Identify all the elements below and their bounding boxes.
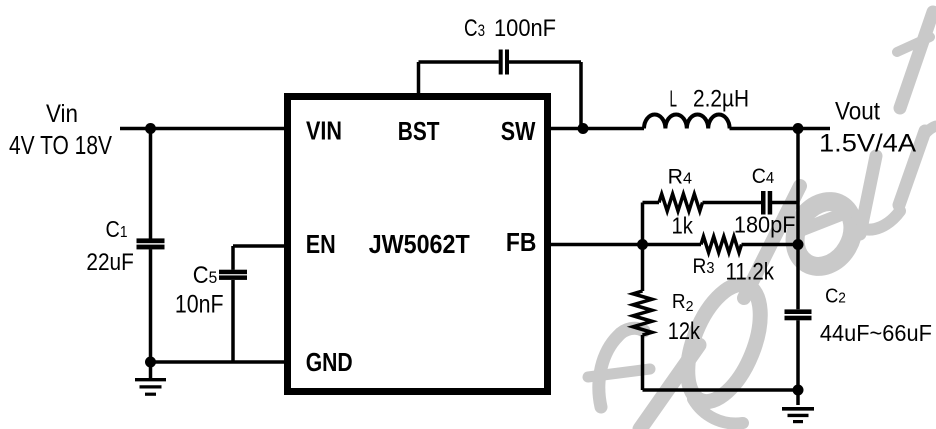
svg-text:R3: R3: [693, 255, 715, 278]
svg-text:VIN: VIN: [306, 116, 342, 146]
watermark letter t crossbar: [897, 37, 930, 52]
wire Vout vertical: [796, 129, 800, 310]
wire C3 top left: [419, 60, 499, 64]
svg-text:SW: SW: [501, 116, 536, 146]
svg-text:C4: C4: [752, 165, 774, 188]
svg-text:R2: R2: [672, 291, 694, 315]
resistor R3 zigzag: [701, 237, 742, 253]
svg-text:10nF: 10nF: [175, 291, 224, 319]
wire R2 lower: [641, 335, 645, 390]
node C1 ground junction: [145, 357, 156, 368]
watermark letter d exit tail: [693, 399, 743, 424]
capacitor C1 plates: [137, 238, 165, 249]
svg-text:2.2µH: 2.2µH: [693, 86, 749, 113]
wire FB pin to junction: [551, 243, 701, 247]
watermark letter i stroke: [640, 345, 699, 429]
svg-text:44uF~66uF: 44uF~66uF: [820, 320, 932, 346]
svg-text:Vin: Vin: [46, 100, 78, 128]
op-amp/IC U1 JW5062T body: [288, 97, 548, 392]
svg-text:L: L: [670, 85, 678, 111]
wire R3 right to vertical: [742, 243, 799, 247]
svg-text:C3: C3: [464, 15, 485, 42]
svg-text:R4: R4: [668, 166, 692, 189]
wire R2 upper: [641, 245, 645, 292]
wire C5 vertical lower: [231, 280, 235, 362]
node FB junction: [637, 239, 648, 250]
svg-text:C1: C1: [106, 216, 128, 242]
watermark letter e bowl: [784, 191, 865, 277]
wire C5 vertical upper: [231, 246, 235, 270]
inductor L 2.2uH: [644, 114, 730, 128]
node C2 ground junction: [793, 385, 804, 396]
svg-text:Vout: Vout: [835, 98, 880, 126]
wire SW to inductor: [551, 127, 644, 131]
capacitor C3 plates: [499, 50, 509, 75]
watermark letter n right stem: [899, 131, 925, 205]
svg-text:EN: EN: [306, 229, 336, 259]
svg-text:1.5V/4A: 1.5V/4A: [819, 130, 916, 158]
svg-text:4V TO 18V: 4V TO 18V: [9, 130, 113, 160]
node Vout junction: [793, 123, 804, 134]
wire C1 vertical upper: [149, 129, 153, 239]
wire C1 vertical lower: [149, 249, 153, 362]
watermark letter d bowl: [673, 274, 775, 411]
capacitor C2 plates: [785, 309, 812, 320]
watermark letter t stem: [900, 12, 933, 108]
watermark letter n top hook: [923, 126, 936, 136]
watermark letter f crossbar: [588, 369, 650, 377]
wire C3 right vertical: [579, 62, 583, 129]
resistor R2 zigzag vertical: [633, 291, 652, 335]
watermark letter n left stem: [860, 156, 876, 234]
watermark letter f hook stroke: [599, 328, 644, 407]
svg-text:180pF: 180pF: [734, 212, 796, 238]
ground left: [135, 362, 166, 394]
node VIN input junction: [145, 123, 156, 134]
svg-text:FB: FB: [506, 227, 537, 257]
capacitor C4 plates: [761, 191, 772, 215]
resistor R4 zigzag: [659, 194, 703, 211]
capacitor C5 plates: [219, 270, 247, 280]
watermark letter e crossbar: [799, 211, 850, 231]
watermark letter n foot: [861, 211, 900, 230]
svg-text:JW5062T: JW5062T: [369, 229, 470, 259]
svg-text:100nF: 100nF: [494, 15, 556, 42]
wire ground rail left: [151, 360, 285, 364]
svg-text:11.2k: 11.2k: [726, 259, 775, 286]
svg-text:1k: 1k: [672, 213, 694, 239]
svg-text:BST: BST: [398, 116, 440, 146]
wire R4 branch vertical: [641, 203, 645, 245]
node R3/C4 output junction: [793, 239, 804, 250]
svg-text:12k: 12k: [668, 318, 701, 345]
svg-text:C5: C5: [193, 262, 218, 289]
wire ground rail right: [643, 388, 799, 392]
svg-text:GND: GND: [306, 347, 353, 377]
svg-text:C2: C2: [825, 286, 846, 308]
wire R4 to C4: [703, 201, 762, 205]
wire C2 below: [796, 320, 800, 390]
wire inductor to Vout: [730, 127, 831, 131]
ground right: [782, 390, 814, 422]
watermark letter d ascender: [744, 186, 800, 298]
node SW/BST junction: [578, 123, 589, 134]
wire R4 branch left: [643, 201, 660, 205]
wire C3 top right: [509, 60, 581, 64]
wire EN pin: [233, 244, 284, 248]
svg-text:22uF: 22uF: [86, 249, 133, 276]
wire C4 to vertical: [772, 201, 798, 205]
wire BST stub: [417, 62, 421, 93]
wire Vin input: [120, 127, 284, 131]
